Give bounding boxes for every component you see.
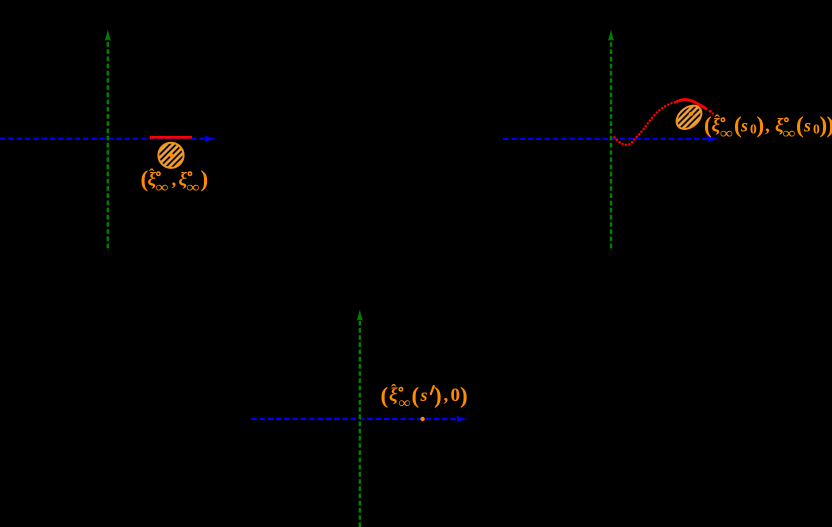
svg-text:∞: ∞ <box>720 126 733 142</box>
svg-text:(: ( <box>796 113 804 138</box>
green y-axis arrowhead panel 2 <box>608 29 614 41</box>
svg-text:s: s <box>803 116 811 136</box>
svg-text:): ) <box>757 113 765 138</box>
svg-text:,: , <box>172 170 177 191</box>
svg-text:s: s <box>740 116 748 136</box>
svg-text:): ) <box>460 383 468 408</box>
orange hatched ellipse panel 2 <box>672 101 706 134</box>
label (xi-hat, xi) panel 1 <box>141 166 209 196</box>
orange center dot panel 2 <box>689 112 693 116</box>
orange point on axis panel 3 <box>420 417 424 421</box>
svg-text:(: ( <box>412 383 420 408</box>
svg-text:): ) <box>434 383 442 408</box>
svg-text:,: , <box>765 116 770 137</box>
svg-text:s: s <box>420 385 428 405</box>
orange center dot panel 1 <box>170 153 174 157</box>
wire: blue dashed x-axis panel 2 <box>503 138 709 140</box>
blue x-axis arrowhead panel 1 <box>204 135 215 142</box>
label (xi-hat(s0), xi(s0)) panel 2 <box>704 113 832 143</box>
label (xi-hat(s'), 0) panel 3 <box>381 382 468 412</box>
svg-text:0: 0 <box>451 385 461 406</box>
green y-axis arrowhead panel 3 <box>357 309 363 321</box>
svg-text:∞: ∞ <box>156 180 169 196</box>
green y-axis arrowhead panel 1 <box>105 29 111 41</box>
svg-text:): ) <box>827 113 832 138</box>
svg-text:∞: ∞ <box>399 396 411 412</box>
red dotted curve panel 2 <box>615 102 677 145</box>
wire: blue dashed x-axis panel 1 <box>0 138 206 140</box>
orange hatched circle panel 1 <box>158 143 183 168</box>
blue x-axis arrowhead panel 2 <box>707 135 718 142</box>
wire: blue dashed x-axis panel 3 <box>251 418 458 420</box>
green dashed y-axis panel 3 <box>359 318 361 527</box>
red trailing dots panel 2 <box>709 110 712 113</box>
blue x-axis arrowhead panel 3 <box>456 416 467 423</box>
svg-text:(: ( <box>381 383 389 408</box>
red solid segment panel 1 <box>150 136 192 139</box>
svg-text:): ) <box>201 166 209 191</box>
green dashed y-axis panel 1 <box>107 38 109 248</box>
svg-text:∞: ∞ <box>783 126 796 142</box>
red solid peak segment panel 2 <box>676 100 707 110</box>
svg-text:,: , <box>444 385 449 406</box>
svg-text:∞: ∞ <box>187 180 200 196</box>
prime mark of s' panel 3 <box>431 386 434 394</box>
green dashed y-axis panel 2 <box>610 38 612 248</box>
